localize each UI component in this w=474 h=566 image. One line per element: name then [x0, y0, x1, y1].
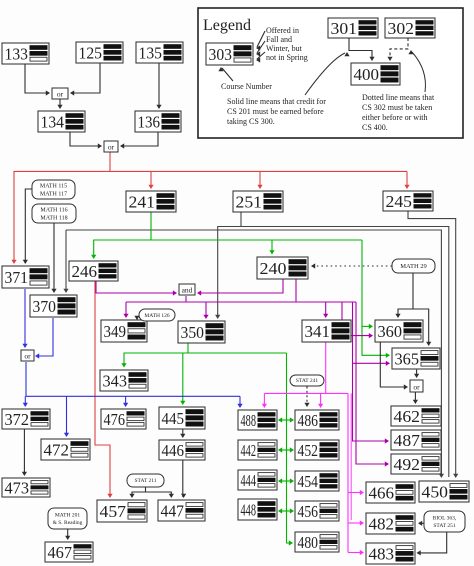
wire math29-360-365: [395, 273, 413, 318]
course box 251: [233, 191, 283, 212]
course box 466: [366, 482, 415, 503]
svg-text:Winter, but: Winter, but: [266, 44, 303, 53]
wire pink-488: [262, 393, 267, 408]
label lbl-stat241: [290, 375, 324, 386]
wire green-cross-511: [278, 508, 294, 513]
course box 483: [366, 543, 415, 564]
course box 240: [257, 257, 308, 279]
operator or4 (or): [410, 380, 423, 392]
wire blue-472: [64, 396, 69, 437]
course box 472: [41, 439, 90, 460]
course box 486: [295, 410, 339, 430]
svg-text:MATH 115: MATH 115: [40, 184, 67, 190]
wire 133-or1: [25, 64, 50, 96]
wire legend 301-400: [349, 38, 375, 61]
wire 246-and: [96, 281, 177, 296]
course box 445: [159, 407, 205, 429]
svg-text:301: 301: [331, 19, 358, 38]
course box 133: [2, 43, 49, 64]
course box 446: [159, 440, 205, 460]
wire 125-or1: [70, 63, 100, 96]
operator or2 (or): [104, 141, 118, 152]
wire red-bus-left: [11, 171, 110, 264]
course box 492: [391, 454, 441, 474]
course box 365: [392, 348, 440, 369]
course box 454: [295, 471, 339, 491]
svg-text:467: 467: [48, 543, 73, 562]
svg-text:456: 456: [298, 502, 319, 521]
wire green-445: [180, 353, 185, 405]
course box 480: [295, 532, 339, 552]
wire purple-365-487: [353, 302, 390, 444]
wire stat211-457: [129, 492, 145, 498]
legend bar arrows: [256, 31, 265, 63]
svg-text:MATH 118: MATH 118: [40, 215, 67, 221]
svg-text:370: 370: [33, 297, 57, 316]
svg-text:either before or with: either before or with: [362, 113, 428, 122]
wire biol-483: [417, 533, 447, 556]
svg-text:or: or: [24, 352, 31, 361]
svg-text:135: 135: [139, 43, 163, 62]
course box 457: [97, 500, 147, 522]
wire 370-or3: [35, 318, 53, 359]
label lbl-math126: [139, 309, 175, 321]
course box 473: [2, 478, 50, 497]
wire red-245: [404, 171, 409, 189]
wire purple-365 branch: [353, 361, 391, 366]
svg-text:349: 349: [104, 322, 127, 341]
wire math126-349 stub: [134, 316, 139, 320]
label lbl-math115: [32, 180, 75, 199]
wire 341-pink: [325, 342, 327, 393]
wire green-col: [287, 353, 294, 546]
wire or4-462: [413, 393, 418, 405]
wire math29-240 dotted: [311, 263, 392, 268]
legend dotted annotation curve: [408, 50, 425, 92]
course box 241: [126, 191, 176, 212]
label lbl-stat211: [127, 474, 164, 487]
wire 135-136: [156, 63, 161, 109]
svg-text:341: 341: [305, 322, 331, 341]
course box 371: [2, 266, 49, 288]
svg-text:483: 483: [369, 544, 395, 563]
svg-text:442: 442: [241, 441, 257, 460]
svg-text:343: 343: [103, 371, 128, 390]
wire 350-green-bus: [188, 343, 287, 353]
svg-text:Fall and: Fall and: [266, 35, 292, 44]
course box 467: [45, 542, 93, 562]
svg-text:CS 201 must be earned before: CS 201 must be earned before: [227, 107, 324, 116]
svg-text:Legend: Legend: [203, 17, 251, 34]
svg-text:BIOL 363,: BIOL 363,: [433, 516, 457, 522]
svg-text:303: 303: [209, 45, 233, 64]
wire 371-or3: [22, 289, 27, 348]
wire blue-476: [123, 396, 128, 407]
wire pink-right: [347, 393, 349, 552]
legend dotted-line text: [362, 93, 435, 132]
wire stat241-486 dashed: [304, 387, 309, 408]
svg-text:& S. Reading: & S. Reading: [53, 520, 83, 526]
wire green-cross-450: [278, 447, 294, 452]
svg-text:STAT 211: STAT 211: [134, 478, 156, 484]
wire purple-349: [123, 302, 128, 318]
svg-text:457: 457: [100, 502, 127, 521]
svg-text:445: 445: [162, 409, 185, 428]
course box 343: [100, 370, 148, 391]
wire 240-and: [197, 279, 283, 296]
wire 240-dline: [295, 279, 297, 302]
svg-text:MATH 29: MATH 29: [400, 263, 427, 270]
course box 372: [2, 409, 50, 429]
svg-text:125: 125: [79, 43, 103, 62]
svg-text:CS 302 must be taken: CS 302 must be taken: [362, 103, 432, 112]
wire legend-bar2: [256, 41, 265, 57]
wire 134-or2: [70, 132, 102, 149]
svg-text:466: 466: [369, 483, 395, 502]
wire 251-450 bus: [241, 227, 449, 478]
wire math201-467: [65, 530, 70, 541]
svg-text:486: 486: [298, 411, 319, 430]
svg-text:448: 448: [241, 500, 257, 519]
course box 482: [366, 513, 415, 534]
course box 135: [136, 42, 183, 63]
svg-text:371: 371: [5, 268, 29, 287]
wire 360-or4: [380, 342, 408, 390]
svg-text:487: 487: [394, 431, 421, 450]
wire 370-450 bus: [66, 230, 444, 478]
course box 301: [328, 18, 378, 38]
course box 476: [101, 409, 146, 429]
svg-text:447: 447: [161, 501, 185, 520]
svg-text:480: 480: [298, 533, 319, 552]
course box 303: [206, 43, 253, 65]
svg-text:482: 482: [369, 514, 395, 533]
course box 487: [391, 430, 441, 450]
svg-text:MATH 116: MATH 116: [40, 208, 67, 214]
wire green-360 branch: [362, 324, 373, 329]
wire legend-bar3: [256, 52, 265, 63]
course box 450: [419, 481, 469, 502]
svg-text:and: and: [182, 286, 193, 295]
svg-text:365: 365: [395, 349, 420, 368]
svg-text:taking CS 300.: taking CS 300.: [227, 117, 275, 126]
wire green-cross-481: [278, 478, 294, 483]
svg-text:400: 400: [354, 65, 380, 84]
svg-text:372: 372: [5, 410, 30, 429]
svg-text:251: 251: [236, 192, 263, 211]
wire legend-bar1: [256, 31, 265, 51]
svg-text:245: 245: [386, 192, 413, 211]
wire green-343: [121, 353, 188, 368]
wire pink-466: [348, 490, 364, 495]
svg-text:133: 133: [5, 44, 29, 63]
svg-text:Solid line means that credit f: Solid line means that credit for: [227, 97, 326, 106]
svg-text:241: 241: [129, 192, 156, 211]
svg-text:STAT 251: STAT 251: [433, 523, 455, 529]
course box 452: [295, 440, 339, 460]
course box 448: [238, 499, 277, 520]
wire lbl116-370: [51, 223, 56, 293]
svg-text:or: or: [57, 90, 64, 99]
svg-text:350: 350: [181, 323, 205, 342]
wire green-246: [91, 240, 151, 259]
svg-text:STAT 241: STAT 241: [296, 378, 318, 384]
course box 134: [38, 111, 85, 132]
wire 446-447: [181, 460, 186, 498]
wire purple-350: [203, 302, 208, 319]
svg-text:492: 492: [394, 455, 421, 474]
svg-text:444: 444: [241, 471, 257, 490]
wire purple-360: [342, 302, 373, 338]
svg-text:MATH 201: MATH 201: [55, 513, 80, 519]
operator and1 (and): [179, 284, 195, 295]
wire 246-457 red: [95, 281, 113, 498]
legend frame: [198, 8, 463, 138]
svg-text:473: 473: [5, 478, 30, 497]
course box 488: [238, 410, 277, 430]
svg-text:MATH 117: MATH 117: [40, 191, 67, 197]
wire green-240: [269, 240, 274, 255]
wire purple-492: [356, 302, 389, 467]
wire blue-488: [237, 396, 242, 408]
legend solid annotation curve: [305, 52, 350, 95]
wire bus-370: [63, 230, 68, 293]
wire 445-446: [180, 429, 185, 438]
wire biol-482: [418, 521, 424, 526]
course box 302: [385, 18, 435, 38]
svg-text:Course Number: Course Number: [221, 82, 272, 91]
label lbl-math29: [392, 259, 435, 273]
course box 442: [238, 440, 277, 460]
wire lbl115-371: [23, 189, 32, 264]
course box 360: [375, 320, 423, 342]
svg-text:not in Spring: not in Spring: [266, 53, 308, 62]
wire or1-134: [57, 99, 62, 109]
course box 456: [295, 501, 339, 521]
wire pink-482: [348, 520, 364, 525]
svg-text:452: 452: [298, 441, 319, 460]
wire 365-or4: [414, 370, 419, 378]
course box 349: [101, 320, 147, 342]
wire dline: [126, 301, 356, 303]
svg-text:or: or: [108, 143, 115, 152]
wire blue-372: [23, 396, 28, 407]
course box 136: [135, 111, 181, 132]
operator or3 (or): [21, 350, 34, 361]
svg-text:136: 136: [138, 112, 161, 131]
course box 350: [178, 321, 225, 343]
label lbl-biol: [424, 511, 465, 532]
wire 251-350: [215, 212, 241, 319]
svg-text:Dotted line means that: Dotted line means that: [362, 93, 435, 102]
svg-text:CS 400.: CS 400.: [362, 123, 388, 132]
wire or3-bus: [26, 362, 240, 396]
wire legend-coursenum-arrow: [218, 67, 233, 81]
course box 447: [158, 500, 205, 521]
svg-text:360: 360: [378, 322, 403, 341]
wire stat211-T: [146, 488, 174, 499]
wire red-241: [148, 171, 153, 189]
svg-text:246: 246: [72, 262, 98, 281]
wire green-cross-420: [278, 417, 294, 422]
course box 400: [351, 63, 400, 85]
course box 245: [383, 191, 433, 211]
wire pink-483: [348, 550, 364, 555]
wire and-dline: [185, 296, 187, 302]
svg-text:134: 134: [41, 112, 65, 131]
wire pink-bus: [264, 392, 348, 394]
wire or2-red-bus: [110, 152, 407, 171]
course box 246: [69, 261, 118, 281]
wire math29-365: [413, 309, 431, 346]
course box 462: [391, 406, 441, 426]
wire pink-486: [318, 393, 323, 408]
wire pink-right2: [350, 393, 352, 520]
course box 444: [238, 470, 277, 490]
svg-text:476: 476: [104, 410, 126, 429]
svg-text:446: 446: [162, 441, 185, 460]
svg-text:462: 462: [394, 407, 421, 426]
label lbl-math116: [32, 204, 76, 223]
wire legend 302-400 dashed: [387, 38, 408, 61]
svg-text:or: or: [413, 383, 420, 392]
label lbl-math201: [48, 508, 87, 529]
wire 372-473: [22, 429, 27, 476]
svg-text:454: 454: [298, 472, 319, 491]
wire green-360-365: [362, 240, 390, 358]
wire red-251: [257, 171, 262, 189]
svg-text:MATH 126: MATH 126: [144, 313, 169, 319]
wire 136-or2: [120, 132, 158, 149]
wire 245-450 right: [408, 211, 458, 478]
svg-text:240: 240: [260, 259, 287, 278]
operator or1 (or): [52, 88, 68, 99]
svg-text:302: 302: [388, 19, 415, 38]
course box 341: [302, 320, 351, 342]
svg-text:488: 488: [241, 411, 257, 430]
legend offered-in text: [266, 26, 308, 62]
wire 241-green: [151, 212, 362, 240]
svg-text:472: 472: [44, 440, 70, 459]
course box 370: [30, 295, 77, 317]
svg-text:Offered in: Offered in: [266, 26, 299, 35]
wire purple-341: [323, 302, 328, 318]
legend solid-line text: [227, 97, 326, 126]
course box 125: [76, 42, 123, 63]
svg-text:450: 450: [422, 482, 449, 501]
